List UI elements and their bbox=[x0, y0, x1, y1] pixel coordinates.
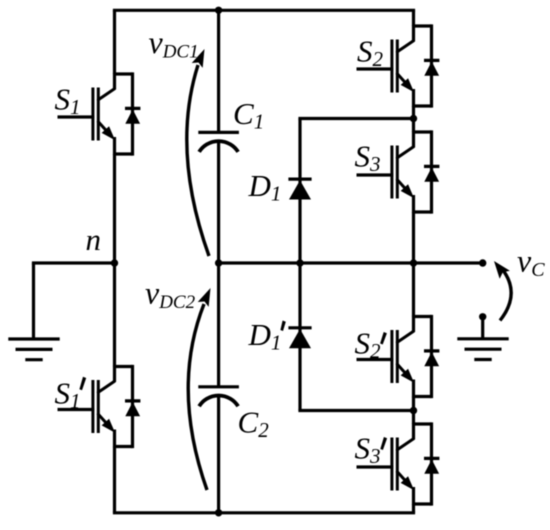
junction middle row / C rail bbox=[215, 259, 222, 266]
svg-text:n: n bbox=[86, 222, 102, 257]
junction S2p/S3p midpoint bbox=[410, 407, 417, 414]
wire S2p emitter to S3p collector bbox=[412, 397, 415, 425]
svg-text:S2: S2 bbox=[357, 34, 384, 72]
ground left bbox=[8, 339, 59, 360]
transistor S3' IGBT bbox=[357, 422, 440, 505]
wire node n to left ground branch bbox=[32, 261, 115, 264]
svg-text:S1: S1 bbox=[55, 81, 81, 119]
transistor S2 IGBT bbox=[357, 24, 440, 107]
wire bottom rail bbox=[113, 511, 415, 514]
svg-text:S1: S1 bbox=[55, 376, 81, 414]
node right ground terminal bbox=[479, 313, 486, 320]
wire middle row to S2p collector bbox=[412, 263, 415, 317]
junction top rail / C rail bbox=[215, 7, 222, 14]
wire top rail bbox=[113, 9, 415, 12]
svg-text:C2: C2 bbox=[238, 405, 270, 443]
ground right bbox=[457, 339, 508, 360]
wire middle row horizontal capacitor midpoint to output terminal bbox=[219, 261, 483, 264]
svg-text:S2: S2 bbox=[355, 326, 382, 364]
transistor S1 IGBT bbox=[58, 72, 141, 155]
wire middle capacitor rail upper (top rail to C1) bbox=[217, 10, 220, 132]
svg-text:S3: S3 bbox=[355, 431, 381, 469]
wire left rail middle segment (S1 emitter to node n to S1p collector) bbox=[113, 154, 116, 367]
wire left rail lower segment bbox=[113, 447, 116, 513]
wire right ground stub bbox=[481, 317, 484, 339]
svg-text:C1: C1 bbox=[233, 96, 264, 134]
wire S3p emitter to bottom rail bbox=[412, 504, 415, 513]
junction S2/S3 midpoint bbox=[410, 115, 417, 122]
wire C2 to bottom rail bbox=[217, 396, 220, 513]
junction middle row / clamp branch bbox=[296, 259, 303, 266]
arrow vDC1 measurement arc bbox=[187, 65, 209, 256]
diode D1 bbox=[288, 179, 311, 199]
wire D1p bottom horizontal to S2p/S3p midpoint bbox=[298, 409, 413, 412]
wire S3 emitter to middle row bbox=[412, 212, 415, 263]
svg-text:vDC1: vDC1 bbox=[149, 24, 199, 63]
wire right rail top to S2 bbox=[412, 10, 415, 26]
svg-text:S3: S3 bbox=[355, 139, 381, 177]
wire clamp branch D1 vertical bbox=[298, 119, 301, 264]
arrow vDC2 measurement arc bbox=[188, 304, 207, 490]
junction bottom rail / C rail bbox=[215, 509, 222, 516]
arrow vC measurement arc bbox=[500, 270, 511, 321]
transistor S3 IGBT bbox=[357, 130, 440, 213]
transistor S1' IGBT bbox=[58, 365, 141, 448]
svg-text:D1: D1 bbox=[248, 317, 282, 355]
capacitor C2 bbox=[198, 387, 239, 407]
transistor S2' IGBT bbox=[357, 315, 440, 398]
diode D1' bbox=[288, 328, 311, 348]
wire left rail upper segment bbox=[113, 10, 116, 74]
node n junction bbox=[111, 259, 118, 266]
node output terminal bbox=[479, 259, 486, 266]
capacitor C1 bbox=[198, 132, 239, 152]
wire clamp branch D1p vertical bbox=[298, 263, 301, 411]
svg-text:D1: D1 bbox=[248, 168, 282, 206]
junction middle row / right rail bbox=[410, 259, 417, 266]
svg-text:vDC2: vDC2 bbox=[145, 275, 196, 314]
wire middle row C2 top bbox=[217, 263, 220, 387]
svg-text:vC: vC bbox=[517, 243, 545, 282]
wire S2 emitter to S3 collector bbox=[412, 106, 415, 132]
wire D1 top horizontal to S2/S3 midpoint bbox=[298, 117, 413, 120]
wire C1 to middle row bbox=[217, 142, 220, 264]
